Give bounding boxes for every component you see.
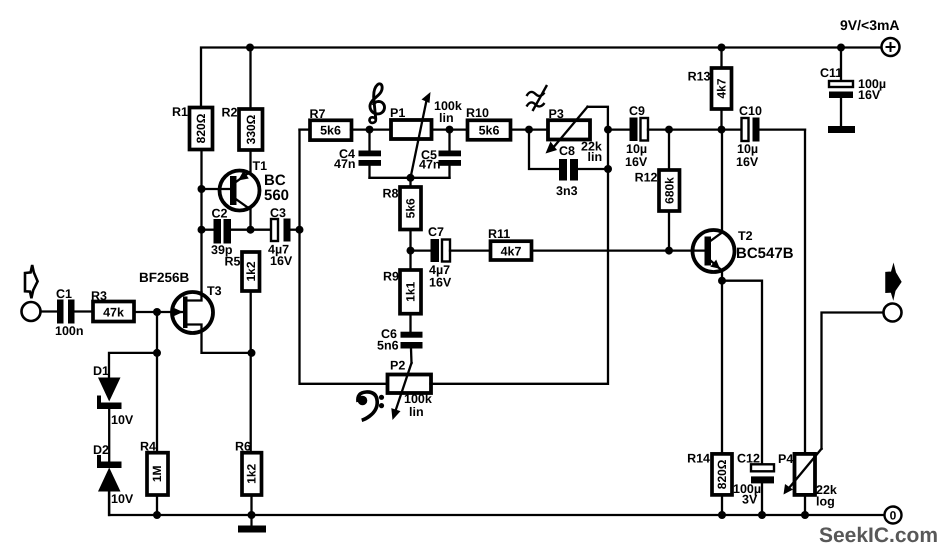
svg-text:10µ: 10µ bbox=[737, 142, 758, 156]
svg-text:3n3: 3n3 bbox=[556, 184, 578, 198]
resistor R9 bbox=[383, 251, 421, 314]
zener diode D1 10V bbox=[93, 364, 134, 427]
svg-text:47n: 47n bbox=[419, 158, 441, 172]
resistor R11 bbox=[488, 227, 532, 260]
wire gate bias down bbox=[156, 312, 158, 353]
potentiometer P2 100k lin bbox=[388, 359, 432, 421]
treble clef symbol bbox=[370, 84, 385, 123]
resistor R4 bbox=[140, 440, 168, 496]
node C5 top junction bbox=[446, 126, 454, 134]
svg-text:3V: 3V bbox=[742, 493, 758, 507]
svg-text:5k6: 5k6 bbox=[479, 124, 500, 138]
svg-text:P4: P4 bbox=[778, 452, 793, 466]
svg-text:820Ω: 820Ω bbox=[715, 459, 729, 489]
svg-text:10V: 10V bbox=[111, 413, 134, 427]
svg-text:1k1: 1k1 bbox=[404, 281, 418, 301]
svg-text:C12: C12 bbox=[737, 452, 760, 466]
mid-band squiggle symbol bbox=[527, 85, 548, 111]
svg-text:R11: R11 bbox=[488, 227, 510, 241]
resistor R7 bbox=[300, 107, 352, 140]
bass clef symbol bbox=[358, 392, 384, 420]
svg-text:P3: P3 bbox=[549, 107, 564, 121]
capacitor C4 bbox=[334, 130, 381, 178]
node T2 emitter junction bbox=[718, 277, 726, 285]
svg-text:16V: 16V bbox=[858, 88, 881, 102]
wire bottom ground rail bbox=[109, 491, 885, 515]
resistor R1 bbox=[172, 105, 212, 150]
node bottom rail junctions bbox=[153, 511, 809, 519]
node C8 right junction bbox=[604, 165, 612, 173]
wire network left vertical bbox=[300, 130, 388, 384]
svg-text:T3: T3 bbox=[207, 284, 222, 298]
node source junction bbox=[248, 349, 256, 357]
wire bias node down to R4 bbox=[156, 353, 158, 453]
wire R7 to P1 bbox=[351, 128, 391, 130]
resistor R6 bbox=[235, 440, 261, 496]
node C2 left junction bbox=[198, 226, 206, 234]
svg-text:BF256B: BF256B bbox=[139, 270, 190, 285]
node C3 out junction bbox=[296, 226, 304, 234]
potentiometer P4 22k log bbox=[778, 449, 837, 515]
svg-text:5n6: 5n6 bbox=[377, 339, 399, 353]
node gate junction bbox=[153, 308, 161, 316]
capacitor C12 (electrolytic) bbox=[733, 452, 774, 516]
svg-text:330Ω: 330Ω bbox=[244, 114, 258, 144]
capacitor C2 bbox=[202, 207, 272, 258]
resistor R13 bbox=[688, 48, 732, 130]
svg-text:9V/<3mA: 9V/<3mA bbox=[840, 17, 900, 33]
svg-text:100n: 100n bbox=[55, 324, 84, 338]
svg-text:R14: R14 bbox=[687, 452, 710, 466]
svg-text:100k: 100k bbox=[404, 392, 432, 406]
node R13 top junction bbox=[718, 44, 726, 52]
svg-text:5k6: 5k6 bbox=[320, 124, 341, 138]
svg-text:R5: R5 bbox=[225, 255, 241, 269]
svg-text:lin: lin bbox=[588, 150, 603, 164]
node P3 left junction bbox=[525, 126, 533, 134]
svg-text:C7: C7 bbox=[428, 225, 444, 239]
ground symbol under R6 bbox=[238, 515, 266, 533]
capacitor C9 (electrolytic) bbox=[608, 104, 742, 169]
zener diode D2 10V bbox=[93, 443, 134, 506]
svg-text:C8: C8 bbox=[559, 144, 575, 158]
wire R10 to P3 bbox=[511, 128, 549, 130]
output plug symbol bbox=[886, 265, 901, 297]
wire R8 to node bbox=[409, 230, 411, 251]
wire top supply rail bbox=[201, 48, 882, 108]
ground symbol under C11 bbox=[828, 126, 855, 133]
potentiometer P1 100k lin bbox=[390, 92, 462, 178]
svg-text:47k: 47k bbox=[103, 306, 124, 320]
transistor T2 BC547B bbox=[693, 130, 794, 281]
svg-text:R10: R10 bbox=[466, 106, 489, 120]
svg-text:R9: R9 bbox=[383, 270, 399, 284]
svg-text:10V: 10V bbox=[111, 492, 134, 506]
capacitor C10 (electrolytic) bbox=[736, 104, 805, 169]
node collector/C3 junction bbox=[247, 226, 255, 234]
capacitor C8 bbox=[529, 130, 608, 198]
resistor R12 bbox=[635, 130, 680, 251]
wire bias to zener chain bbox=[109, 353, 157, 377]
svg-text:R7: R7 bbox=[310, 107, 326, 121]
capacitor C7 (electrolytic) bbox=[411, 225, 491, 290]
svg-text:680k: 680k bbox=[662, 177, 676, 204]
node C4 top junction bbox=[366, 126, 374, 134]
node C11 top junction bbox=[837, 44, 845, 52]
wire P4 wiper to output bbox=[822, 313, 884, 449]
wire R6 to rail bbox=[250, 495, 252, 515]
svg-text:D1: D1 bbox=[93, 364, 109, 378]
resistor R3 bbox=[91, 289, 134, 322]
svg-text:47n: 47n bbox=[334, 157, 356, 171]
svg-text:16V: 16V bbox=[270, 254, 293, 268]
wire D2 down to rail bbox=[108, 492, 110, 516]
wire R1 down to T3 drain bbox=[200, 150, 202, 293]
svg-text:16V: 16V bbox=[625, 155, 648, 169]
svg-text:BC547B: BC547B bbox=[736, 245, 794, 262]
svg-text:R6: R6 bbox=[235, 440, 251, 454]
supply + terminal bbox=[882, 38, 900, 56]
resistor R5 bbox=[225, 252, 260, 291]
svg-text:P1: P1 bbox=[390, 106, 405, 120]
input terminal circle bbox=[22, 302, 41, 321]
node T2 base junction bbox=[665, 247, 673, 255]
svg-text:R2: R2 bbox=[222, 106, 238, 120]
resistor R14 bbox=[687, 452, 732, 516]
svg-text:R8: R8 bbox=[383, 187, 399, 201]
svg-text:D2: D2 bbox=[93, 443, 109, 457]
wire C10 down to P4 bbox=[804, 130, 806, 454]
node wiper/R8 junction bbox=[407, 174, 415, 182]
svg-text:C2: C2 bbox=[212, 207, 228, 221]
node R2 top junction bbox=[246, 44, 254, 52]
svg-text:1M: 1M bbox=[150, 465, 164, 482]
wire C4-C5 bottom link bbox=[370, 177, 450, 179]
wire emitter to C12 branch bbox=[722, 281, 762, 465]
svg-text:R1: R1 bbox=[172, 105, 188, 119]
svg-text:16V: 16V bbox=[429, 276, 452, 290]
node T2 collector junction bbox=[718, 126, 726, 134]
wire R11 to T2 base bbox=[532, 249, 705, 251]
node T1 base junction bbox=[198, 185, 206, 193]
svg-text:C11: C11 bbox=[820, 66, 842, 80]
wire network bottom right bbox=[431, 130, 609, 384]
svg-text:lin: lin bbox=[439, 111, 454, 125]
capacitor C3 (electrolytic) bbox=[268, 206, 300, 268]
svg-text:C10: C10 bbox=[739, 104, 762, 118]
capacitor C6 bbox=[377, 314, 423, 363]
svg-text:4k7: 4k7 bbox=[501, 245, 522, 259]
svg-text:820Ω: 820Ω bbox=[194, 113, 208, 143]
node P3 right junction bbox=[604, 126, 612, 134]
wire D1 to D2 bbox=[108, 409, 110, 462]
potentiometer P3 22k lin bbox=[546, 107, 608, 164]
watermark SeekIC.com bbox=[819, 524, 938, 547]
svg-text:P2: P2 bbox=[390, 359, 405, 373]
svg-text:SeekIC.com: SeekIC.com bbox=[819, 524, 938, 547]
svg-text:C9: C9 bbox=[629, 104, 645, 118]
svg-text:log: log bbox=[816, 495, 835, 509]
resistor R10 bbox=[432, 106, 511, 140]
capacitor C5 bbox=[419, 130, 461, 178]
output 0 terminal bbox=[885, 507, 902, 524]
svg-text:lin: lin bbox=[409, 405, 424, 419]
svg-text:16V: 16V bbox=[736, 155, 759, 169]
resistor R8 bbox=[383, 178, 421, 230]
node R9/C7 junction bbox=[407, 247, 415, 255]
capacitor C1 bbox=[55, 287, 84, 338]
output terminal circle bbox=[884, 304, 902, 322]
node R12 top junction bbox=[665, 126, 673, 134]
wire input to C1 bbox=[41, 310, 58, 312]
svg-text:R4: R4 bbox=[140, 440, 156, 454]
input plug symbol bbox=[25, 265, 38, 298]
svg-text:C3: C3 bbox=[270, 206, 286, 220]
wire R3 to T3 gate bbox=[134, 311, 176, 313]
svg-text:1k2: 1k2 bbox=[245, 463, 259, 483]
svg-text:C1: C1 bbox=[56, 287, 72, 301]
svg-text:5k6: 5k6 bbox=[404, 198, 418, 218]
svg-text:0: 0 bbox=[890, 509, 897, 523]
wire C1 to R3 bbox=[75, 310, 93, 312]
wire emitter to R14 bbox=[721, 281, 723, 454]
svg-text:R3: R3 bbox=[91, 289, 107, 303]
svg-text:560: 560 bbox=[264, 187, 289, 204]
wire R5 to R6 bbox=[250, 291, 252, 453]
svg-text:R12: R12 bbox=[635, 171, 658, 185]
svg-text:T2: T2 bbox=[738, 229, 753, 243]
svg-text:10µ: 10µ bbox=[626, 142, 647, 156]
node bias junction bbox=[153, 349, 161, 357]
capacitor C11 (electrolytic) bbox=[820, 48, 886, 127]
svg-text:1k2: 1k2 bbox=[244, 261, 258, 281]
resistor R2 bbox=[222, 48, 263, 151]
svg-text:T1: T1 bbox=[253, 159, 268, 173]
label 9V/<3mA bbox=[840, 17, 900, 33]
svg-text:4k7: 4k7 bbox=[715, 78, 729, 98]
transistor T1 BC560 bbox=[202, 150, 290, 230]
jfet T3 BF256B bbox=[139, 270, 252, 353]
wire R4 to rail bbox=[156, 495, 158, 515]
svg-text:R13: R13 bbox=[688, 70, 711, 84]
